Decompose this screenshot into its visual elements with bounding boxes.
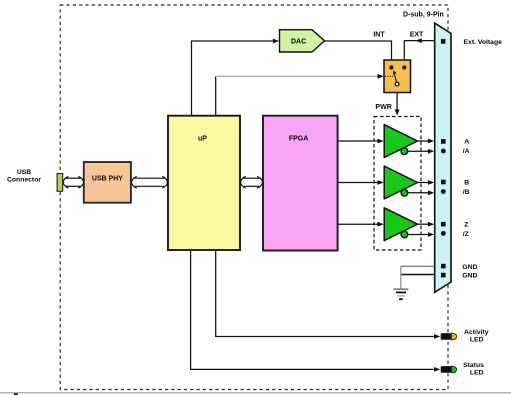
svg-text:GND: GND (462, 272, 477, 279)
svg-text:B: B (464, 179, 469, 186)
svg-text:Z: Z (464, 222, 468, 229)
svg-text:USB: USB (17, 169, 31, 176)
svg-text:/A: /A (463, 148, 470, 155)
svg-text:D-sub, 9-Pin: D-sub, 9-Pin (403, 12, 444, 19)
svg-text:PWR: PWR (375, 104, 391, 111)
svg-text:GND: GND (462, 264, 477, 271)
svg-text:EXT: EXT (410, 32, 424, 39)
svg-text:FPGA: FPGA (289, 135, 308, 142)
svg-text:uP: uP (198, 136, 207, 143)
svg-text:/Z: /Z (463, 231, 469, 238)
svg-text:LED: LED (470, 369, 484, 376)
svg-text:Connector: Connector (7, 176, 41, 183)
svg-text:USB PHY: USB PHY (92, 176, 123, 183)
svg-text:Activity: Activity (464, 329, 489, 336)
svg-text:A: A (464, 139, 469, 146)
svg-text:Status: Status (463, 362, 484, 369)
svg-text:LED: LED (470, 336, 484, 343)
svg-text:INT: INT (373, 31, 385, 38)
svg-text:/B: /B (463, 189, 470, 196)
svg-text:DAC: DAC (291, 38, 306, 45)
svg-text:Ext. Voltage: Ext. Voltage (464, 39, 503, 46)
